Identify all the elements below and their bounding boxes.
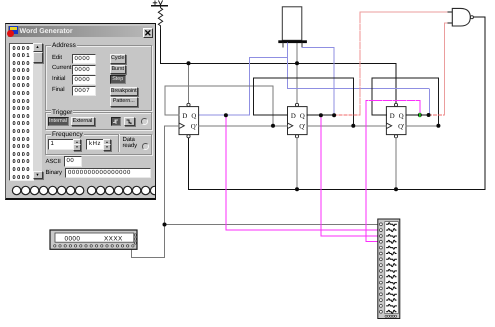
- power +V label: [153, 1, 162, 5]
- wire FF3 D feedback loop: [372, 78, 438, 126]
- svg-text:0000: 0000: [65, 236, 81, 243]
- wire magenta FF1 Q to analyzer ch2: [226, 115, 379, 230]
- svg-text:Q': Q': [299, 124, 305, 131]
- svg-text:Q: Q: [300, 113, 305, 120]
- logic analyzer channel terminals: [380, 223, 383, 313]
- wire blue net A: FF1 Q to crystal left pin region: [199, 43, 430, 115]
- crystal X1 body: [282, 7, 302, 41]
- wire blue net B: crystal right pin to FF2 Q: [302, 48, 334, 114]
- node junction FF3 loop / Q' line: [436, 124, 440, 128]
- wire red dashed FF2 Q to NAND net: [334, 114, 360, 116]
- node junction FF1 Q / magenta tap: [224, 113, 228, 117]
- node junction FF3 Q / blue red: [427, 113, 431, 117]
- bottom terminals: [6, 184, 155, 198]
- wire magenta FF3 Q to analyzer ch4: [366, 101, 420, 242]
- power +V rail bar: [152, 5, 168, 7]
- wire FF1 D feedback loop: [165, 86, 273, 126]
- word generator icon terminals bottom: [54, 245, 134, 247]
- logic analyzer waveforms: [387, 223, 397, 313]
- word generator icon WG1: [50, 230, 137, 249]
- buttons: [110, 54, 127, 64]
- node junction preset rail / FF1: [187, 61, 191, 65]
- wire FF2 Q' to FF3 clock: [307, 125, 386, 127]
- wire FF2 Q output: [307, 114, 334, 116]
- wire FF1 Q' to FF2 clock: [199, 125, 288, 127]
- Frequency group: [45, 134, 152, 156]
- wire FF3 Q output: [406, 114, 429, 116]
- Address group: [45, 45, 152, 111]
- wire NAND in2 stub: [448, 22, 452, 24]
- crystal pin right: [301, 43, 303, 47]
- svg-text:Q': Q': [191, 124, 197, 131]
- wire FF2 clear vertical: [296, 138, 298, 189]
- svg-text:Q: Q: [399, 113, 404, 120]
- scrollbar: [33, 43, 43, 179]
- svg-text:D: D: [182, 113, 187, 120]
- NAND gate U4: [452, 8, 473, 26]
- wire resistor to preset rail: [160, 30, 162, 63]
- crystal X1 plate bar: [278, 40, 307, 43]
- wire FF1 clock from word generator: [132, 126, 180, 258]
- wire NAND in1 stub: [448, 11, 452, 13]
- wire red dashed FF3 Q to NAND net: [429, 114, 445, 116]
- node junction FF2 loop / Q' line: [351, 124, 355, 128]
- wire FF3 Q' stub: [406, 125, 438, 127]
- address list: [9, 43, 34, 181]
- node junction clock net: [163, 223, 167, 227]
- node junction preset rail / FF2: [295, 61, 299, 65]
- wire clock to logic analyzer ch1: [165, 224, 380, 226]
- wire FF2 preset vertical: [296, 44, 298, 104]
- svg-text:D: D: [291, 113, 296, 120]
- resistor R1 (pull-up to +V): [158, 6, 162, 30]
- ASCII / Binary: [46, 159, 61, 165]
- node junction clear rail / FF3: [394, 187, 398, 191]
- node junction FF3 Q / magenta tap (green): [418, 113, 422, 117]
- Trigger group: [45, 112, 152, 131]
- wire FF1 preset vertical: [188, 63, 190, 103]
- D flip-flop U1: [179, 103, 199, 138]
- D flip-flop U2: [288, 103, 308, 138]
- wire preset rail (y=63.3) with FF3 preset drop: [161, 63, 397, 103]
- svg-text:XXXX: XXXX: [104, 236, 123, 243]
- D flip-flop U3: [386, 103, 406, 138]
- wire salmon NAND input 1 net: [360, 12, 448, 115]
- Word Generator dialog: [5, 23, 156, 200]
- svg-text:D: D: [390, 113, 395, 120]
- crystal pin left: [282, 43, 284, 47]
- node junction FF2 Q / magenta tap: [319, 113, 323, 117]
- wire FF3 clear vertical: [395, 138, 397, 189]
- wire FF2 D feedback loop: [253, 78, 353, 126]
- node junction FF1 loop / Q' line: [271, 124, 275, 128]
- svg-text:Q: Q: [191, 113, 196, 120]
- logic analyzer bottom terminals: [385, 315, 397, 317]
- node junction FF2 Q / blue red: [332, 113, 336, 117]
- svg-text:Q': Q': [398, 124, 404, 131]
- node junction clear rail / FF2: [295, 187, 299, 191]
- wire magenta FF2 Q to analyzer ch3: [321, 115, 379, 236]
- wire NAND output to clear rail: [189, 17, 486, 189]
- word generator icon side terminals: [134, 234, 136, 244]
- logic analyzer icon LA1: [378, 219, 400, 319]
- wire salmon NAND input 2 net: [445, 23, 448, 115]
